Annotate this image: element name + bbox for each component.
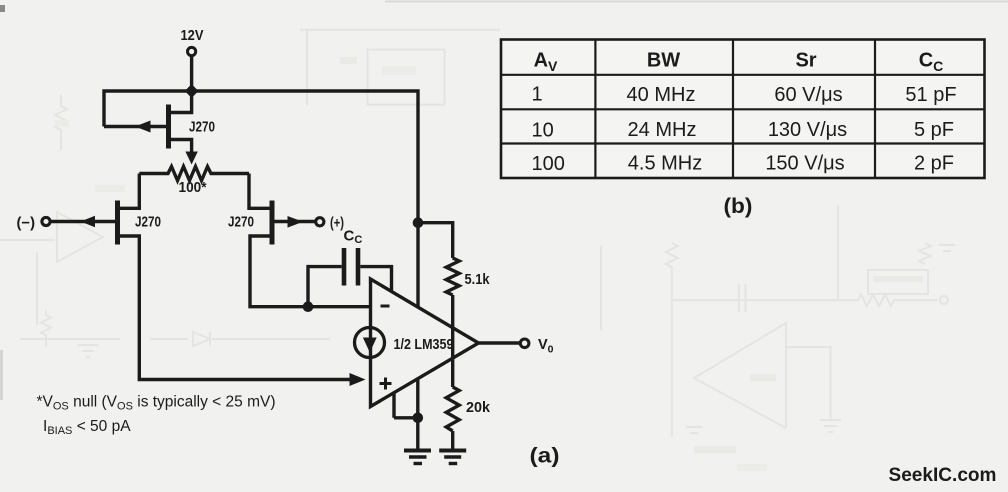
wire R1 left lead to Q2 drain: [119, 174, 139, 209]
svg-text:Sr: Sr: [795, 50, 816, 72]
svg-text:2 pF: 2 pF: [914, 153, 954, 175]
terminal (-) input: [42, 217, 50, 225]
wire Q2 bottom lead to op-amp + input: [119, 236, 360, 380]
op-amp U1 triangle (1/2 LM359): [371, 279, 479, 407]
arrowhead on Q2 gate (points left): [81, 216, 96, 228]
svg-text:24 MHz: 24 MHz: [628, 119, 697, 141]
wire supply node to resistor chain: [418, 223, 453, 258]
wire Q3 bottom lead to op-amp - input: [250, 236, 371, 307]
wire Q1 top lead to rail junction: [170, 91, 192, 113]
svg-text:150 V/μs: 150 V/μs: [765, 153, 844, 175]
svg-text:J270: J270: [135, 214, 161, 231]
svg-text:J270: J270: [228, 214, 254, 231]
svg-text:100*: 100*: [179, 179, 207, 196]
wire Q3 gate lead: [275, 220, 317, 223]
svg-text:10: 10: [532, 119, 554, 141]
arrowhead Q1 source to R1 (points down): [185, 152, 197, 165]
transistor Q2 J270 channel bar: [115, 201, 120, 245]
svg-text:1: 1: [532, 84, 543, 106]
table column lines: [595, 40, 875, 179]
svg-text:(+): (+): [330, 215, 344, 231]
table outer border: [501, 40, 985, 179]
resistor 5.1k: [446, 258, 459, 295]
svg-text:12V: 12V: [181, 27, 204, 44]
junction dot at - input node: [303, 301, 314, 312]
junction at 12V rail (diamond): [185, 84, 199, 98]
svg-text:(b): (b): [724, 195, 753, 218]
svg-text:20k: 20k: [466, 399, 491, 416]
svg-text:SeekIC.com: SeekIC.com: [889, 465, 997, 486]
wire top rail with left loop to Q1 gate and right drop to supply node: [104, 91, 418, 307]
svg-text:4.5 MHz: 4.5 MHz: [628, 153, 702, 175]
junction dot at ground pin node: [413, 413, 424, 424]
svg-text:1/2 LM359: 1/2 LM359: [394, 337, 454, 353]
plus sign at non-inverting input: [380, 378, 392, 390]
wire Q2 gate lead: [51, 220, 116, 223]
wire - input node up to capacitor Cc left plate: [308, 267, 342, 307]
arrowhead on Q3 gate (points right): [288, 216, 304, 228]
current source symbol inside U1: [355, 328, 385, 358]
table cell background: [501, 40, 985, 179]
svg-text:(−): (−): [17, 215, 36, 232]
scan artifacts, decorative: [0, 5, 5, 12]
svg-text:40 MHz: 40 MHz: [627, 84, 696, 106]
wire 5.1k to 20k (crosses op-amp body): [451, 295, 454, 387]
table (b): performance table: [501, 40, 985, 179]
resistor R1 100 ohm (VOS null): [139, 167, 249, 181]
svg-text:BW: BW: [647, 50, 680, 72]
transistor Q3 J270 channel bar: [270, 201, 275, 245]
svg-text:5 pF: 5 pF: [914, 119, 954, 141]
wire R1 right lead to Q3 drain: [249, 174, 270, 209]
wire Q1 gate lead: [104, 125, 166, 128]
svg-text:(a): (a): [530, 445, 560, 468]
ground G1 (op-amp): [404, 449, 431, 453]
wire ground pin node to ground: [416, 418, 419, 451]
svg-text:51 pF: 51 pF: [905, 84, 956, 106]
terminal V0 output: [520, 339, 529, 348]
pin stub U1 bottom (ground pin): [416, 379, 419, 418]
svg-text:5.1k: 5.1k: [465, 271, 491, 288]
table row lines: [501, 75, 985, 144]
svg-text:130 V/μs: 130 V/μs: [768, 119, 847, 141]
svg-text:60 V/μs: 60 V/μs: [774, 84, 842, 106]
resistor 20k: [446, 387, 459, 431]
arrowhead on Q1 gate (points left): [135, 121, 151, 133]
svg-text:*VOS null (VOS is typically <: *VOS null (VOS is typically < 25 mV): [37, 394, 276, 413]
wire 12V terminal to rail: [190, 56, 193, 87]
transistor Q1 J270 channel bar: [166, 105, 171, 149]
pin stub U1 bottom left: [392, 392, 395, 418]
capacitor Cc left plate: [342, 248, 347, 286]
wire op-amp output: [479, 341, 521, 344]
arrowhead into + input (points right): [350, 373, 366, 386]
wire Cc right plate to op-amp top edge: [360, 267, 391, 291]
terminal (+) input: [316, 218, 324, 226]
minus sign at inverting input: [381, 305, 390, 308]
arrowhead of current source (points down): [363, 338, 377, 353]
terminal 12V: [188, 47, 196, 55]
MAIN CIRCUIT: [17, 27, 554, 464]
wire Q1 bottom lead down to R1: [170, 140, 192, 154]
junction dot at supply node: [413, 217, 424, 228]
svg-text:J270: J270: [189, 119, 215, 136]
svg-text:100: 100: [532, 153, 565, 175]
ground G2 (20k): [439, 449, 466, 453]
wire 20k to ground: [451, 431, 454, 451]
capacitor Cc right plate: [356, 248, 361, 286]
wire joining bottom pins: [394, 416, 418, 419]
